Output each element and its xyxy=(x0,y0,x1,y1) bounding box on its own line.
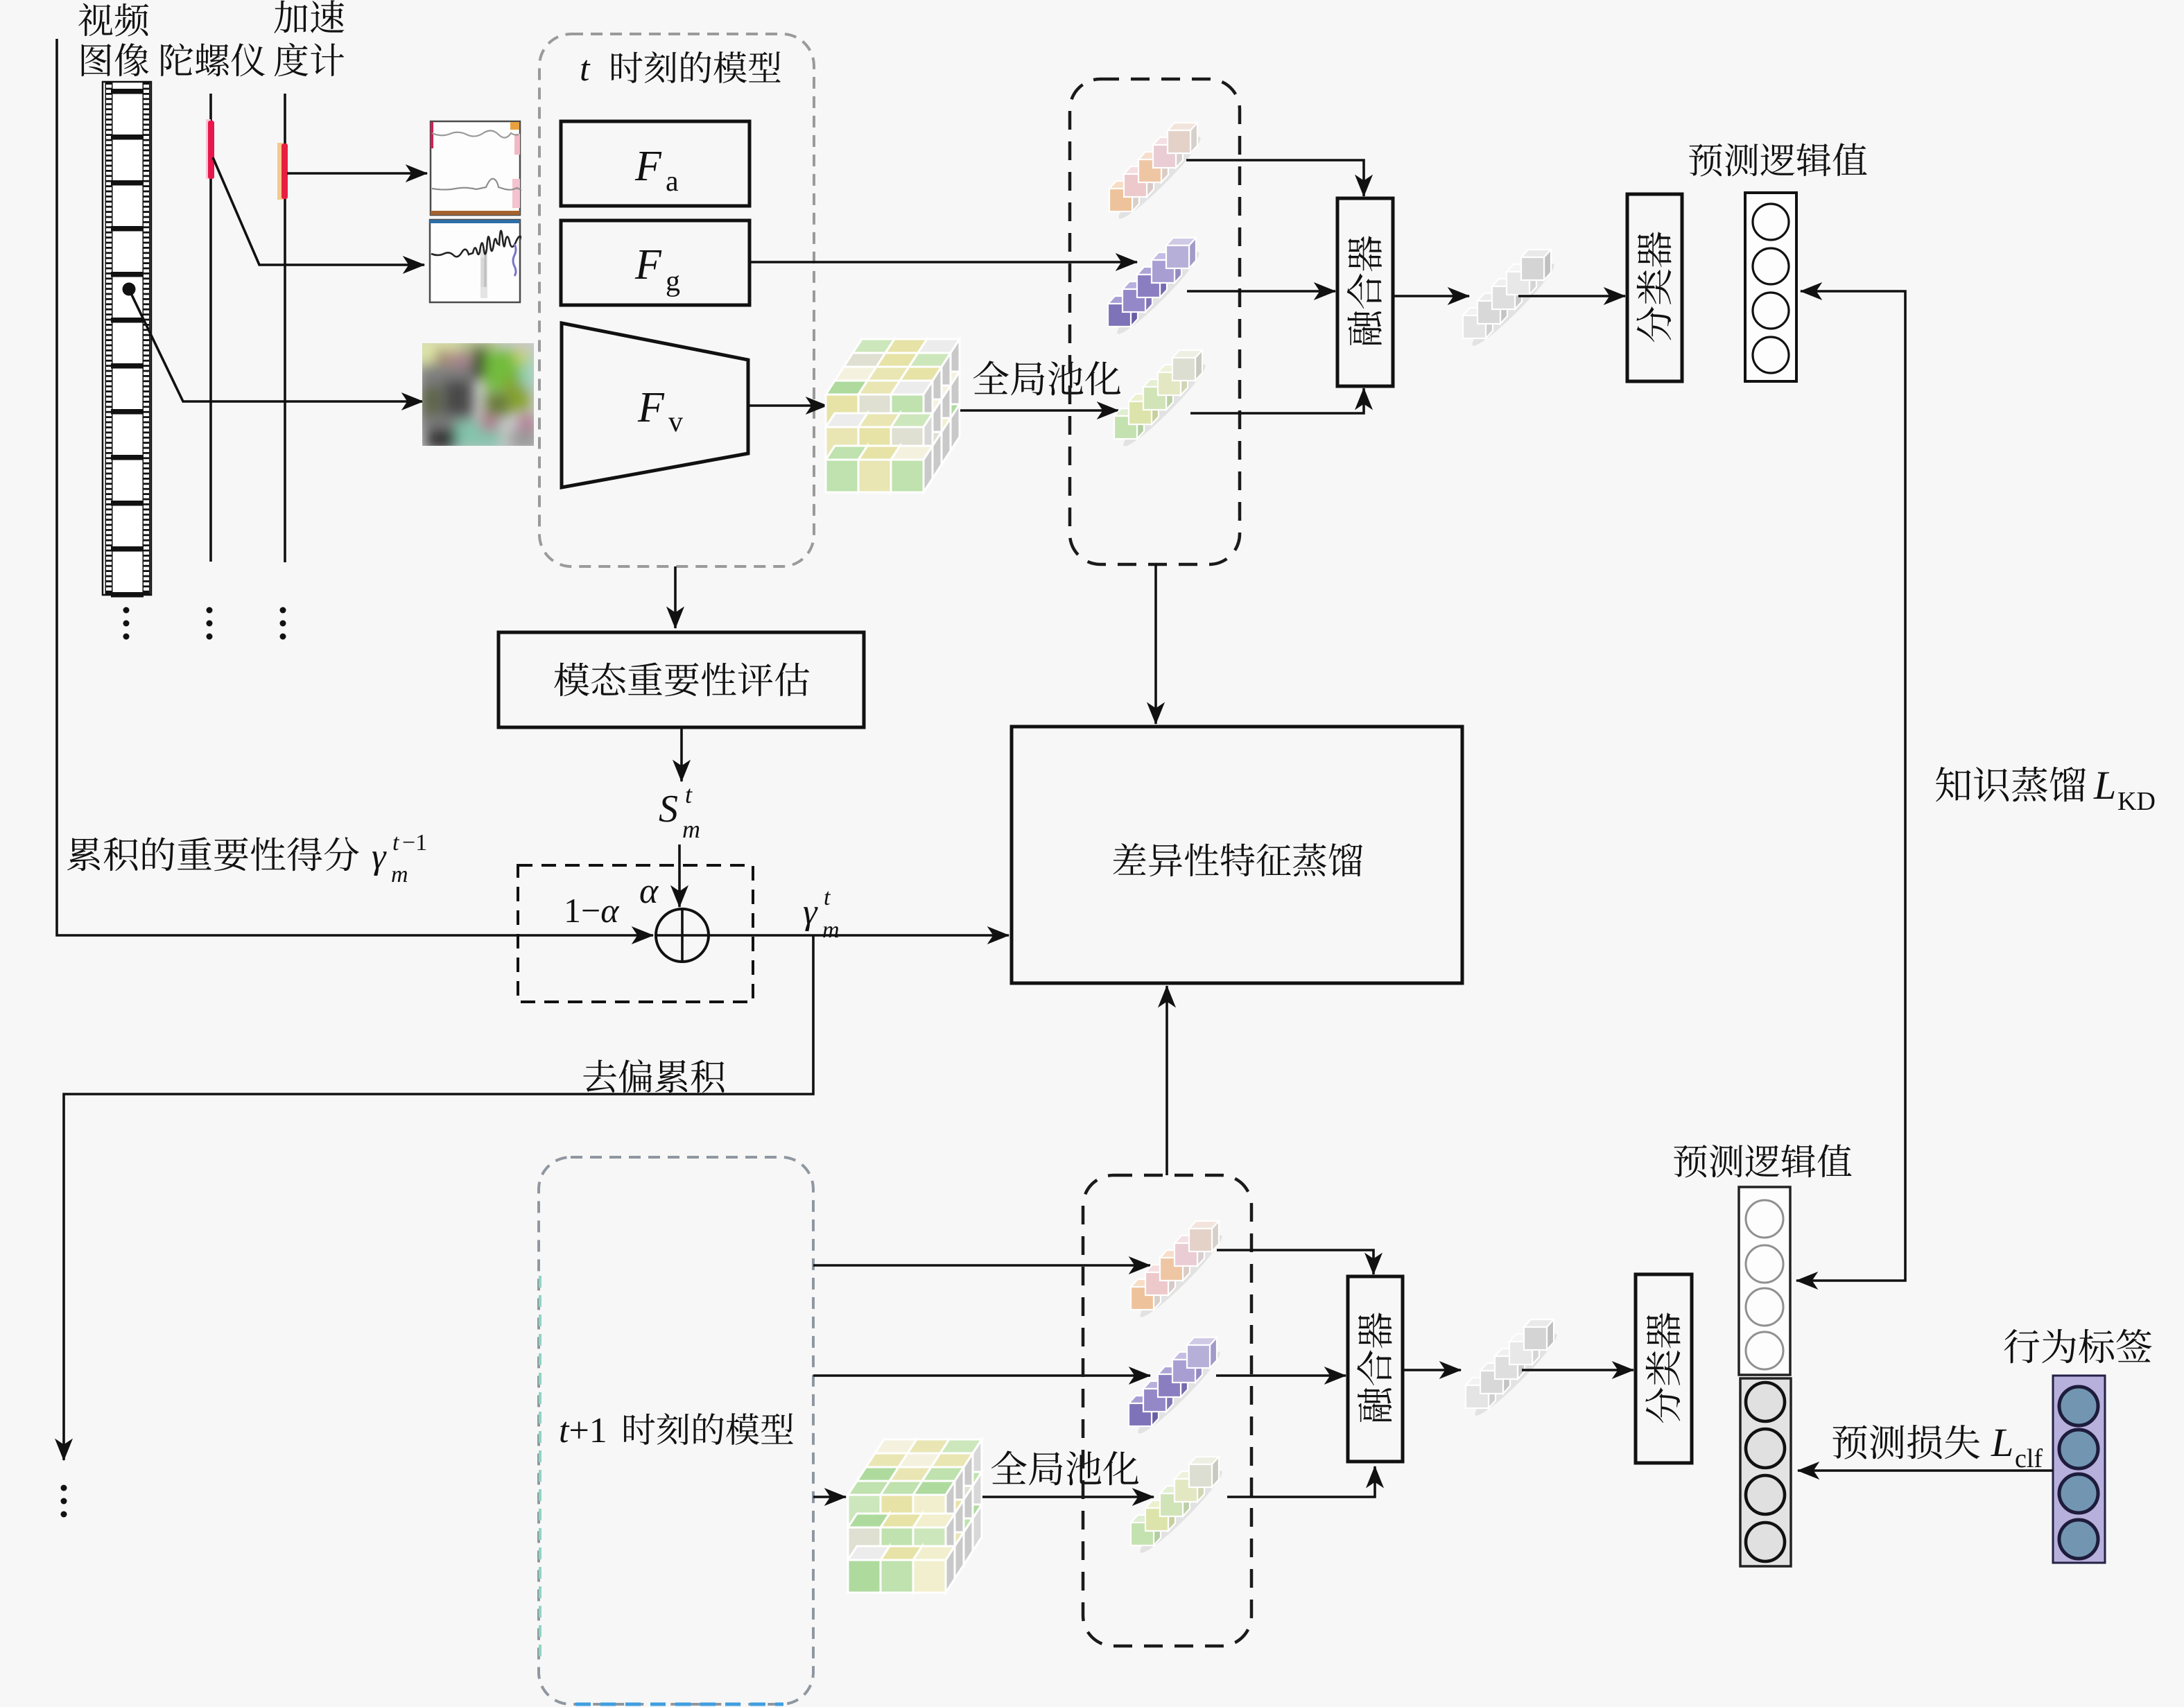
encoder F_a box xyxy=(561,121,749,206)
classifier box (time t) xyxy=(1627,194,1682,381)
column label: gyroscope xyxy=(161,43,265,76)
student logits vector (white, gray circles) xyxy=(1739,1187,1790,1375)
svg-text:F: F xyxy=(637,384,665,431)
wire: S_m^t into adder xyxy=(678,844,681,907)
knowledge distillation wire with arrows on both ends xyxy=(1796,291,1905,1281)
svg-text:S: S xyxy=(659,788,678,831)
modality importance assessment box xyxy=(499,632,864,727)
fusion box (time t) xyxy=(1337,198,1393,386)
svg-text:F: F xyxy=(634,241,662,288)
svg-text:α: α xyxy=(639,872,659,911)
wire: purple vector to fusion left (t+1) xyxy=(1216,1374,1346,1377)
orange feature vector (audio, t) xyxy=(1113,132,1206,224)
fused gray vector (time t) xyxy=(1467,259,1559,351)
svg-text:1−α: 1−α xyxy=(564,891,620,930)
green feature vector (video, t+1) xyxy=(1135,1466,1227,1558)
wire: green vector to fusion bottom xyxy=(1190,388,1364,413)
wire: cube block to green vector (global pooling) xyxy=(960,409,1118,412)
svg-text:g: g xyxy=(666,266,680,297)
adder circle-plus xyxy=(656,909,709,962)
film strip xyxy=(103,82,151,598)
wire: assessment to S_m^t xyxy=(680,727,683,781)
video frame thumbnail xyxy=(416,338,538,449)
label: predicted logits (bottom) xyxy=(1674,1144,1851,1177)
accelerometer highlighted segment xyxy=(277,143,283,200)
svg-text:L: L xyxy=(1991,1420,2013,1465)
differential feature distillation box xyxy=(1012,727,1462,983)
wire: accumulated importance score from top-left down to adder xyxy=(57,39,653,935)
accelerometer waveform thumbnail xyxy=(431,121,523,215)
gyroscope waveform thumbnail xyxy=(430,220,551,302)
wire: t+1 model to orange vector xyxy=(813,1264,1150,1267)
wire: t+1 model to purple vector xyxy=(813,1374,1150,1377)
fusion box (time t+1) xyxy=(1348,1276,1403,1462)
label: accumulated importance score gamma_m^(t-1) xyxy=(67,837,359,871)
wire: gray vector to classifier (t+1) xyxy=(1522,1369,1633,1371)
svg-text:L: L xyxy=(2093,763,2116,808)
svg-text:t: t xyxy=(580,49,591,89)
svg-text:clf: clf xyxy=(2015,1444,2043,1473)
predicted logits vector (teacher) xyxy=(1745,193,1796,381)
column label: video frames xyxy=(78,3,148,37)
wire: fusion to gray vector (t+1) xyxy=(1403,1369,1461,1371)
wire: orange vector to fusion top (t+1) xyxy=(1217,1250,1373,1274)
label: global pooling (bottom) xyxy=(991,1450,1138,1485)
wire: green vector to fusion bottom (t+1) xyxy=(1227,1466,1375,1497)
label: global pooling (top) xyxy=(973,361,1120,395)
wire: gyro segment to gyro plot xyxy=(213,157,424,265)
label: action label xyxy=(2004,1329,2152,1364)
sampled frame dot and wire to video thumbnail xyxy=(123,283,136,296)
label: prediction loss L_clf xyxy=(1832,1425,1979,1459)
wire: gray vector to classifier (t) xyxy=(1518,295,1625,297)
label: debias accumulation xyxy=(583,1059,724,1093)
orange feature vector (audio, t+1) xyxy=(1135,1230,1227,1322)
wire: F_v to feature cube block xyxy=(748,404,827,407)
column label: accelerometer xyxy=(274,0,344,33)
dashed container: features at time t+1 xyxy=(1083,1175,1251,1646)
feature cube block at time t+1 xyxy=(875,1439,917,1453)
action label one-hot vector box xyxy=(2053,1376,2105,1563)
svg-text:γ: γ xyxy=(803,892,818,932)
wire: cube block to green vector (bottom pooling) xyxy=(982,1496,1154,1498)
wire: bottom features box up to distillation box xyxy=(1165,986,1168,1175)
green feature vector (video, t) xyxy=(1118,359,1211,451)
encoder F_v trapezoid xyxy=(562,323,748,487)
wire: model t box to modality importance assessment xyxy=(674,566,677,628)
wire: orange vector to fusion top xyxy=(1186,160,1364,196)
purple feature vector (gyro, t) xyxy=(1112,247,1204,339)
feature cube block at time t xyxy=(853,339,894,353)
svg-text:γ: γ xyxy=(372,837,387,876)
ellipsis dots under columns xyxy=(123,607,130,614)
svg-text:m: m xyxy=(682,815,700,843)
label: knowledge distillation L_KD xyxy=(1936,767,2086,802)
svg-text:t: t xyxy=(685,781,693,808)
purple feature vector (gyro, t+1) xyxy=(1133,1346,1225,1439)
classifier box (time t+1) xyxy=(1636,1274,1692,1463)
wire: purple vector to fusion left xyxy=(1187,290,1335,293)
svg-text:t+1: t+1 xyxy=(559,1411,607,1450)
svg-text:KD: KD xyxy=(2117,787,2156,816)
gyroscope highlighted segment xyxy=(206,119,211,179)
dashed container: model at time t xyxy=(539,34,814,566)
wire: action label to student logits (prediction loss) xyxy=(1798,1469,2053,1472)
svg-text:m: m xyxy=(822,917,840,943)
ellipsis under debias arrow xyxy=(61,1485,67,1491)
svg-text:a: a xyxy=(666,166,679,198)
gyroscope signal line xyxy=(209,94,212,562)
wire: fusion to fused gray vector xyxy=(1393,295,1469,297)
svg-text:v: v xyxy=(668,406,683,438)
svg-text:−1: −1 xyxy=(402,830,427,856)
wire: F_g to purple feature vector xyxy=(749,261,1137,263)
wire: adder output gamma to distillation box xyxy=(709,934,1009,937)
wire: top features box down to distillation box xyxy=(1154,564,1157,724)
svg-text:F: F xyxy=(634,143,662,190)
dashed container: model at time t+1 xyxy=(539,1157,813,1704)
fused gray vector (time t+1) xyxy=(1470,1328,1562,1421)
wire: debias accumulation branch down-left xyxy=(64,935,813,1460)
svg-text:t: t xyxy=(824,885,831,910)
wire: t+1 model to cube block xyxy=(813,1496,846,1498)
dashed box around adder xyxy=(518,865,753,1002)
label: predicted logits (top) xyxy=(1689,143,1866,176)
wire: accel segment to accel plot xyxy=(287,172,427,175)
accelerometer signal line xyxy=(284,94,286,562)
dashed container: features at time t xyxy=(1070,79,1240,564)
student logits vector (gray, black circles) xyxy=(1740,1378,1791,1566)
svg-text:t: t xyxy=(392,830,400,856)
encoder F_g box xyxy=(561,220,749,305)
svg-text:m: m xyxy=(391,862,408,887)
